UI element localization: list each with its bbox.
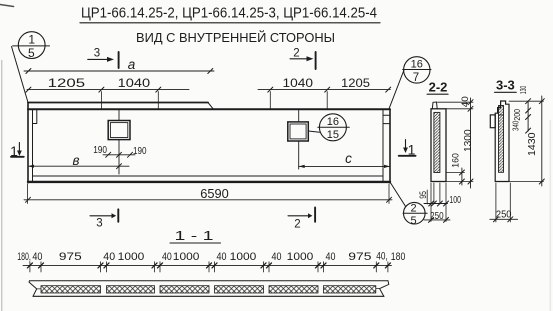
svg-text:а: а (128, 57, 136, 72)
subtitle (136, 30, 335, 45)
svg-text:190: 190 (93, 145, 107, 156)
svg-text:975: 975 (59, 251, 82, 263)
section mark 3 bottom (90, 209, 118, 229)
section 2-2 top tongue (432, 102, 437, 109)
section mark 2 top (290, 48, 316, 70)
left opening (108, 109, 130, 174)
svg-text:975: 975 (348, 251, 371, 263)
strip left end profile (29, 281, 37, 297)
dimension chain of section 1-1 (23, 264, 392, 266)
svg-text:16: 16 (327, 116, 339, 128)
right opening (288, 109, 309, 169)
svg-text:340: 340 (511, 120, 521, 131)
strip bottom line (33, 295, 384, 297)
strip top line (30, 280, 389, 282)
svg-text:1300: 1300 (463, 129, 474, 152)
chain extension ticks below (30, 262, 388, 272)
section mark 1 left (10, 143, 24, 160)
callout circle 16/15 (318, 114, 350, 141)
svg-text:40: 40 (217, 251, 227, 263)
leader from callout 16/15 to right opening (308, 131, 319, 132)
svg-text:40,: 40, (376, 250, 388, 262)
panel top-left corner notch (33, 109, 37, 123)
svg-text:5: 5 (28, 46, 35, 60)
svg-text:5: 5 (410, 215, 416, 227)
svg-text:3: 3 (96, 218, 102, 230)
svg-text:в: в (72, 153, 79, 168)
svg-text:200: 200 (512, 109, 522, 121)
svg-text:2: 2 (410, 202, 416, 214)
section 2-2 bottom extension lines (427, 183, 446, 222)
svg-text:40: 40 (272, 251, 282, 263)
svg-text:2: 2 (294, 219, 300, 231)
section 3-3 dim 250 (490, 183, 518, 222)
svg-text:40: 40 (162, 251, 172, 263)
svg-text:1: 1 (28, 33, 35, 47)
section 2-2 dims 40 and 1300 (460, 96, 474, 188)
svg-text:3-3: 3-3 (496, 78, 515, 93)
section mark 1 right (399, 140, 416, 158)
section 3-3 inner dim line 130/200/340 (511, 86, 531, 134)
callout circle 16/7 (403, 57, 431, 84)
panel right inner edge (382, 109, 384, 181)
callout circle 1/5 (13, 32, 50, 61)
section 2-2 dim 250 (424, 210, 450, 222)
svg-text:3: 3 (94, 48, 100, 60)
svg-text:1000: 1000 (173, 251, 200, 263)
svg-text:2: 2 (293, 48, 299, 60)
panel top-right corner notch (383, 115, 390, 123)
panel bottom outer edge (28, 181, 390, 183)
leader from callout 2/5 to panel corner (390, 182, 405, 206)
svg-text:1000: 1000 (118, 251, 145, 263)
section 3-3 slot rung (499, 114, 504, 116)
svg-text:1040: 1040 (283, 76, 314, 90)
chain dimension texts (17, 250, 405, 263)
svg-text:15: 15 (327, 129, 339, 141)
panel left outer edge (27, 103, 29, 183)
dimension row a (variable) (24, 57, 214, 74)
svg-text:95: 95 (418, 191, 428, 199)
section 3-3 embedded box (490, 115, 495, 128)
dimension line c (variable) (299, 151, 390, 168)
svg-text:180: 180 (391, 251, 406, 263)
svg-text:1205: 1205 (341, 76, 370, 90)
svg-text:1000: 1000 (287, 251, 314, 263)
svg-text:16: 16 (411, 59, 423, 71)
dimension 190+190 at left opening (93, 145, 147, 157)
chain tick marks (27, 263, 390, 268)
svg-text:160: 160 (451, 153, 462, 168)
section 2-2 dim row 100 (424, 195, 461, 206)
svg-text:1 - 1: 1 - 1 (175, 229, 214, 243)
panel left inner edge (32, 109, 34, 181)
title (81, 6, 377, 22)
svg-text:100: 100 (449, 195, 461, 206)
dimension line b (variable) (28, 153, 129, 169)
svg-text:40: 40 (326, 251, 336, 263)
panel main top edge (28, 108, 390, 110)
title underline (80, 22, 380, 24)
section 2-2 hollow slot (434, 112, 440, 172)
section 2-2 dim 160 (451, 153, 465, 185)
section 3-3 bottom extension line (509, 181, 544, 183)
panel top tongue line (28, 102, 208, 104)
leader from callout 16/7 to panel corner (389, 71, 404, 109)
svg-text:190: 190 (133, 146, 147, 157)
strip right end profile (380, 281, 389, 297)
panel right outer edge (389, 109, 391, 183)
svg-text:1430: 1430 (527, 132, 538, 156)
svg-text:2-2: 2-2 (429, 80, 448, 95)
section 2-2 extension lines (438, 102, 474, 181)
svg-text:ЦР1-66.14.25-2, ЦР1-66.14.25-3: ЦР1-66.14.25-2, ЦР1-66.14.25-3, ЦР1-66.1… (81, 6, 377, 22)
svg-text:40: 40 (103, 251, 115, 263)
svg-text:1205: 1205 (48, 76, 86, 90)
label 2-2 (429, 80, 448, 95)
section 3-3 body profile (495, 101, 509, 182)
section mark 3 top (88, 48, 119, 69)
svg-text:ВИД С ВНУТРЕННЕЙ СТОРОНЫ: ВИД С ВНУТРЕННЕЙ СТОРОНЫ (136, 30, 335, 45)
section 3-3 hollow slot (499, 106, 504, 173)
svg-text:250: 250 (496, 209, 512, 221)
svg-text:с: с (345, 151, 352, 166)
svg-text:40: 40 (460, 96, 471, 107)
section 3-3 dim 1430 (527, 96, 544, 186)
dimension row 2 left: 1205, 1040 (26, 76, 189, 109)
section 2-2 outer body (431, 109, 446, 182)
section 3-3 top extension line (509, 100, 544, 102)
scan artifact left edge (0, 5, 14, 7)
section mark 2 bottom (288, 208, 315, 231)
svg-text:130: 130 (518, 86, 528, 95)
svg-text:7: 7 (413, 72, 419, 84)
label 3-3 (496, 78, 515, 93)
panel tongue chamfer (208, 103, 214, 110)
svg-text:40: 40 (32, 251, 42, 263)
dimension 6590 (24, 184, 392, 204)
leader from callout 1/5 to panel corner (12, 47, 29, 103)
svg-text:250: 250 (430, 210, 444, 222)
svg-text:180,: 180, (17, 251, 31, 263)
section 2-2 dim 95 (418, 191, 428, 199)
dimension row 2 right: 1040, 1205 (258, 76, 391, 109)
panel bottom inner line (33, 175, 384, 177)
svg-text:1040: 1040 (118, 76, 151, 90)
label 1-1 (175, 229, 214, 243)
strip hatched segments (41, 286, 376, 293)
callout circle 2/5 (403, 202, 427, 227)
svg-text:6590: 6590 (200, 187, 229, 201)
svg-text:1000: 1000 (230, 251, 257, 263)
